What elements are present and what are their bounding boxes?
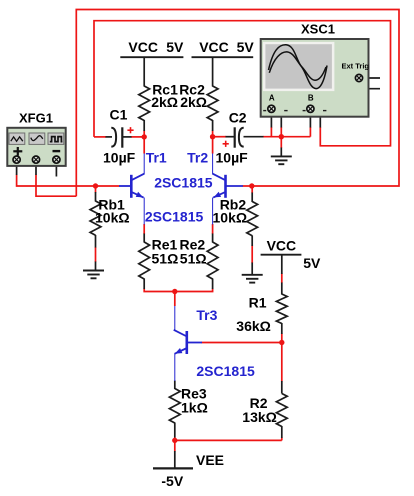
- svg-text:10kΩ: 10kΩ: [213, 209, 248, 225]
- wire C2 right to scope A node: [263, 136, 310, 138]
- svg-text:10µF: 10µF: [216, 150, 249, 166]
- svg-text:A: A: [269, 93, 275, 102]
- wire C2 right lead black: [244, 136, 264, 138]
- capacitor C1: [111, 127, 122, 147]
- ground below Rb2: [242, 275, 263, 283]
- wire XFG1 terminal leads: [16, 163, 18, 175]
- wire emitter bus: [144, 289, 212, 292]
- wire Rb2 bottom red: [251, 246, 253, 264]
- capacitor C2 plus: [223, 141, 229, 147]
- capacitor C2: [235, 127, 244, 147]
- wire VEE stem black: [174, 451, 176, 468]
- terminal B: [307, 105, 314, 112]
- wire C2 left lead black: [226, 136, 235, 138]
- svg-text:36kΩ: 36kΩ: [236, 318, 271, 334]
- wire Tr1 collector red: [143, 137, 145, 154]
- resistor Rb2: [247, 202, 258, 236]
- transistor Tr2: [212, 154, 243, 225]
- wire inner loop: C1 left up over top to scope B stub: [94, 21, 391, 146]
- svg-text:XSC1: XSC1: [301, 21, 335, 36]
- svg-text:10kΩ: 10kΩ: [95, 209, 130, 225]
- svg-text:51Ω: 51Ω: [152, 250, 179, 266]
- wire XFG1 common down and right: [36, 175, 76, 197]
- instrument XFG1 box: [7, 128, 65, 166]
- wire Rc2 bottom lead: [212, 120, 214, 131]
- wire Rb1 top red: [95, 186, 97, 193]
- wire R2 bottom red: [281, 438, 283, 441]
- wire C1 right to node: [131, 136, 144, 138]
- wire C1 left stub: [94, 136, 106, 138]
- wire R1 leads: [281, 283, 283, 295]
- wire R1 bottom red: [281, 334, 283, 343]
- wire C1 left lead black: [106, 136, 113, 138]
- svg-text:5V: 5V: [303, 255, 321, 271]
- resistor Re1: [139, 242, 150, 279]
- wire VEE red: [174, 440, 176, 451]
- wire Tr2 base red segment: [243, 185, 252, 187]
- wire Tr3 base to divider: [202, 342, 282, 344]
- wire C1 right lead black: [123, 136, 132, 138]
- transistor Tr3: [174, 306, 202, 381]
- wire VCC2 stem: [212, 57, 214, 86]
- wire Tr2 collector red: [212, 137, 214, 154]
- wire ext trig stubs: [362, 77, 380, 79]
- wire scope node to ground red: [280, 137, 282, 148]
- svg-text:-5V: -5V: [161, 473, 183, 489]
- svg-text:10µF: 10µF: [103, 150, 136, 166]
- svg-text:Tr2: Tr2: [187, 149, 208, 165]
- power rail VCC right: [261, 254, 302, 256]
- svg-text:C2: C2: [229, 109, 247, 125]
- wire R2 leads: [281, 381, 283, 394]
- ground below scope node: [271, 156, 292, 164]
- svg-text:51Ω: 51Ω: [180, 250, 207, 266]
- wire Rb2 leads: [251, 193, 253, 203]
- wire Rc2 bottom red: [212, 131, 214, 137]
- svg-text:2SC1815: 2SC1815: [154, 175, 213, 191]
- wire outer loop: common up over top right down to Tr2 base: [76, 10, 399, 197]
- wire scope B left vertical red part: [309, 127, 311, 137]
- wire Re2 leads: [212, 234, 214, 243]
- resistor Re3: [169, 389, 180, 424]
- scope trace B: [269, 52, 326, 80]
- svg-text:5V: 5V: [166, 39, 184, 55]
- wire Rb1 bottom red: [95, 247, 97, 262]
- terminal polarity dashes: [263, 110, 326, 112]
- wire scope A circle lead: [270, 113, 272, 128]
- wire VCC to R1 red: [281, 274, 283, 284]
- svg-text:5V: 5V: [237, 39, 255, 55]
- svg-text:VCC: VCC: [267, 237, 297, 253]
- instrument XSC1 box: [261, 39, 369, 117]
- svg-text:Tr3: Tr3: [196, 307, 217, 323]
- resistor Re2: [207, 242, 218, 279]
- terminal A: [268, 105, 275, 112]
- resistor Rc1: [90, 86, 287, 427]
- ext trig terminal: [355, 74, 362, 81]
- wire Rb1 leads: [95, 192, 97, 202]
- wire tail node to Tr3 collector: [174, 292, 176, 307]
- svg-text:VCC: VCC: [128, 39, 158, 55]
- svg-text:13kΩ: 13kΩ: [242, 409, 277, 425]
- power rail VCC1: [120, 57, 301, 468]
- transistor Tr1: [119, 154, 144, 225]
- wire Re3 leads: [174, 381, 176, 390]
- svg-text:Tr1: Tr1: [146, 149, 167, 165]
- power rail VCC2: [192, 56, 254, 58]
- resistor Rb1: [90, 201, 101, 235]
- svg-text:XFG1: XFG1: [19, 110, 53, 125]
- wire scope B circle lead: [309, 113, 311, 128]
- wire scope A minus stub: [275, 109, 282, 128]
- wire scope A stub vertical red part: [280, 127, 282, 137]
- wire Rb2 top red: [251, 186, 253, 193]
- wire Rc1 bottom lead: [143, 120, 145, 131]
- svg-text:R1: R1: [249, 295, 267, 311]
- svg-text:Ext Trig: Ext Trig: [342, 61, 370, 70]
- resistor R2: [276, 394, 287, 427]
- resistor R1: [276, 294, 287, 324]
- ground below Rb1: [83, 271, 104, 279]
- wire VCC1 stem: [143, 57, 145, 86]
- junction node dots: [93, 134, 285, 443]
- wire VCC right stem: [281, 255, 283, 274]
- resistor Rc2: [207, 86, 218, 121]
- wire Tr2 emitter red: [212, 224, 214, 234]
- wire scope A left vertical red part: [270, 127, 272, 137]
- wire scope ground stem: [280, 148, 282, 157]
- svg-text:1kΩ: 1kΩ: [181, 400, 208, 416]
- svg-text:B: B: [308, 93, 314, 102]
- scope trace A: [269, 45, 328, 89]
- svg-text:2SC1815: 2SC1815: [145, 208, 204, 224]
- power rail VEE: [153, 467, 193, 469]
- capacitor C1 plus: [127, 127, 133, 133]
- svg-text:2kΩ: 2kΩ: [151, 94, 178, 110]
- svg-text:2kΩ: 2kΩ: [180, 94, 207, 110]
- svg-text:C1: C1: [110, 107, 128, 123]
- wire Rc1 bottom red: [143, 131, 145, 137]
- wire bottom bus: [175, 437, 282, 440]
- wire Re1 leads: [143, 234, 145, 243]
- wire R2 top red: [281, 343, 283, 382]
- svg-text:VCC: VCC: [199, 39, 229, 55]
- svg-text:2SC1815: 2SC1815: [196, 363, 255, 379]
- svg-text:VEE: VEE: [196, 452, 224, 468]
- wire C2 left: [213, 136, 226, 138]
- wire scope B minus stub: [314, 109, 321, 128]
- wire Tr1 emitter red: [143, 224, 145, 234]
